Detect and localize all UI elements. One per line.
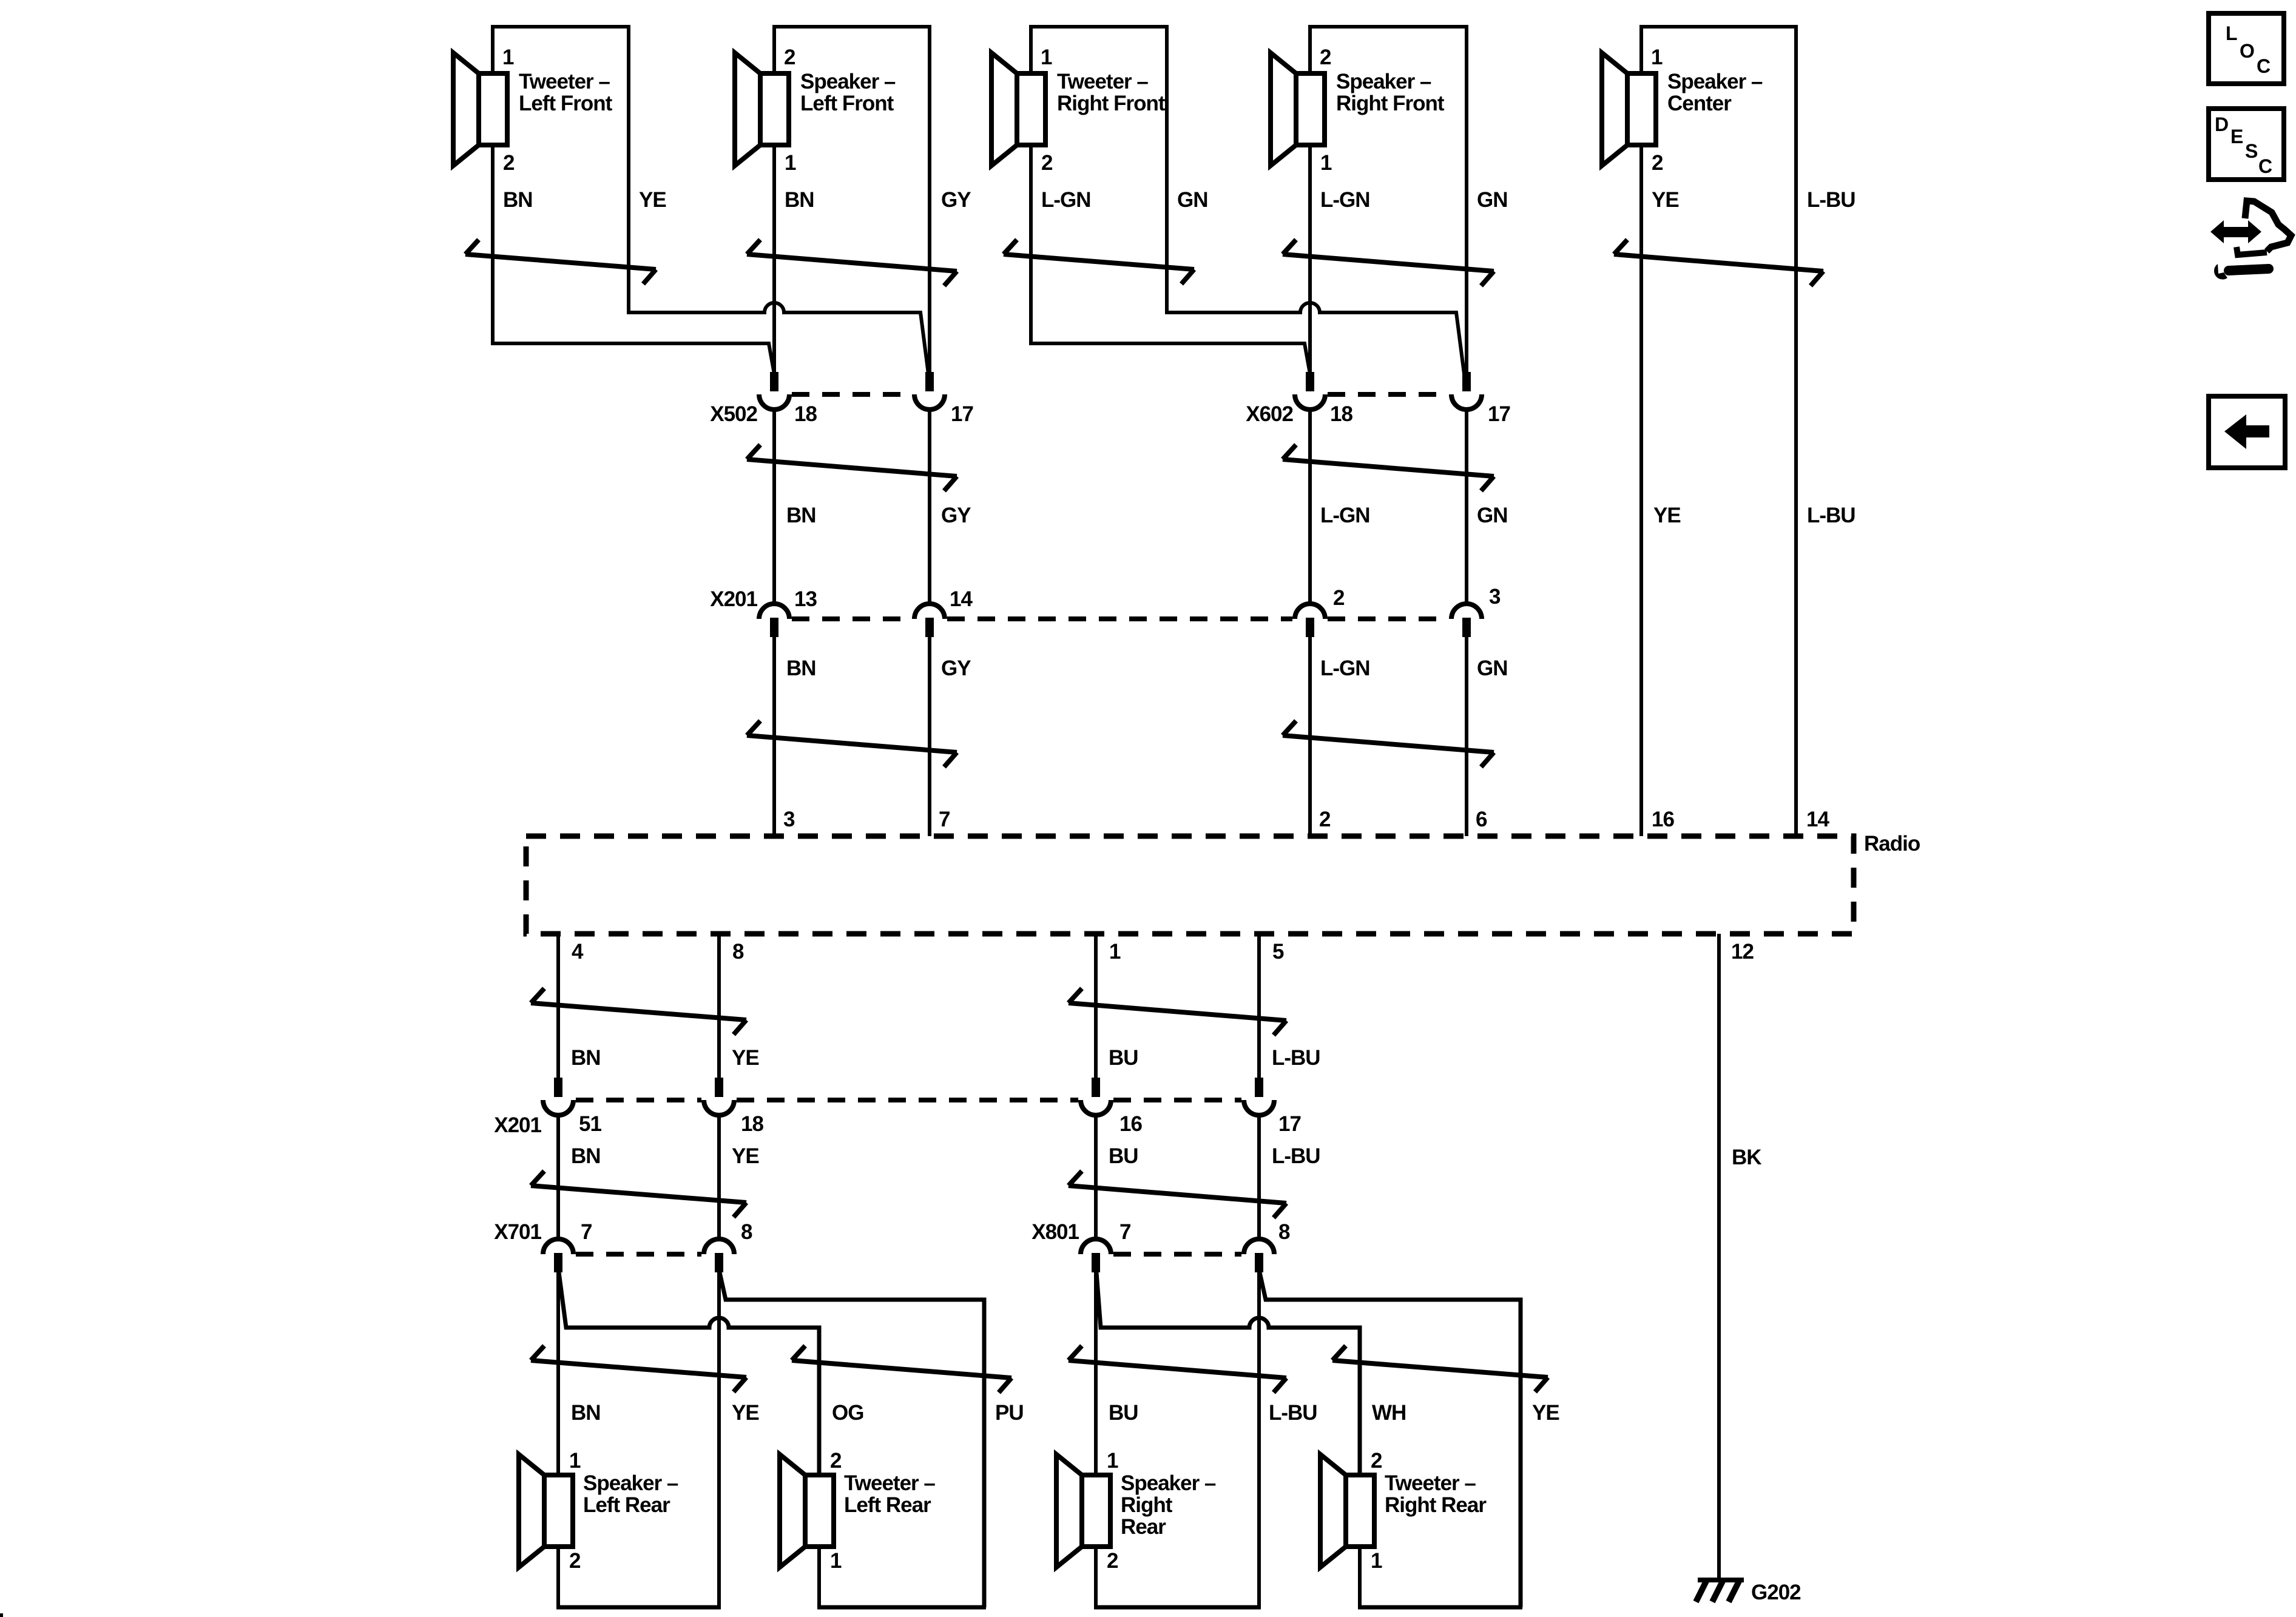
svg-text:2: 2: [1371, 1449, 1382, 1473]
wire L-GN tweeter-right-front pin 2 to X602 pin 18: [1031, 145, 1310, 374]
svg-text:YE: YE: [732, 1144, 759, 1168]
svg-text:17: 17: [951, 402, 973, 426]
svg-text:L-BU: L-BU: [1272, 1046, 1320, 1070]
connector X502 pin 17: [925, 372, 934, 391]
svg-text:2: 2: [1107, 1549, 1118, 1573]
connector X801 pin 7: [1081, 1239, 1111, 1254]
svg-text:3: 3: [1489, 585, 1501, 609]
svg-text:17: 17: [1278, 1112, 1301, 1136]
twisted pair symbol LF pair (middle): [747, 459, 957, 476]
svg-text:L: L: [2226, 22, 2237, 44]
svg-text:X502: X502: [710, 402, 757, 426]
svg-text:GY: GY: [941, 188, 971, 212]
svg-text:X201: X201: [710, 587, 757, 611]
svg-text:Left Front: Left Front: [519, 92, 613, 115]
svg-text:7: 7: [581, 1220, 592, 1244]
speaker icon speaker right front: [1271, 53, 1296, 166]
svg-text:1: 1: [830, 1549, 842, 1573]
svg-text:8: 8: [1278, 1220, 1290, 1244]
twisted pair symbol LF pair (lower): [747, 735, 957, 752]
twisted pair symbol center speaker pair: [1614, 254, 1823, 271]
svg-text:1: 1: [569, 1449, 581, 1473]
connector X201 pin 13: [759, 604, 789, 619]
dashed connector line X201 18-16: [737, 1098, 1078, 1102]
svg-text:G202: G202: [1751, 1581, 1801, 1604]
speaker icon speaker center: [1602, 53, 1627, 166]
connector X602 pin 17: [1462, 372, 1471, 391]
svg-text:O: O: [2240, 40, 2254, 62]
svg-text:12: 12: [1731, 940, 1754, 964]
dashed connector line X701: [576, 1252, 701, 1257]
svg-text:Speaker –: Speaker –: [1336, 70, 1431, 93]
wire YE speaker-center pin 1 to radio pin 16: [1639, 145, 1643, 836]
twisted pair symbol LF tweeter pair: [465, 254, 656, 269]
wire GN X502/X602 to X201: [1465, 410, 1468, 604]
twisted pair symbol tweeter-left-rear: [792, 1360, 1011, 1378]
wire BN speaker-left-front pin 1 to X502 pin 18: [772, 145, 776, 374]
svg-text:L-BU: L-BU: [1807, 504, 1855, 527]
svg-text:5: 5: [1272, 940, 1284, 964]
svg-text:2: 2: [1041, 151, 1053, 175]
connector X201 pin 17: [1255, 1078, 1263, 1097]
svg-text:Left Rear: Left Rear: [583, 1493, 670, 1517]
svg-text:Tweeter –: Tweeter –: [844, 1471, 935, 1495]
wire GY speaker-left-front pin 2 to X502 pin 17: [774, 27, 930, 374]
svg-text:8: 8: [732, 940, 744, 964]
svg-text:51: 51: [579, 1112, 601, 1136]
wire WH X801 pin 7 branch to tweeter-right-rear pin 2: [1096, 1272, 1360, 1475]
twisted pair symbol tweeter-right-rear: [1332, 1360, 1548, 1377]
wire BU X201 to X701/X801: [1094, 1115, 1098, 1239]
twisted pair symbol RR pair (middle): [1069, 1186, 1286, 1203]
speaker icon speaker left rear: [519, 1454, 544, 1567]
wire L-BU radio pin 5 to X201: [1257, 934, 1261, 1078]
svg-text:3: 3: [783, 808, 795, 831]
svg-text:Speaker –: Speaker –: [1667, 70, 1763, 93]
svg-text:X602: X602: [1246, 402, 1293, 426]
svg-text:2: 2: [1320, 46, 1331, 69]
dashed connector line X201 2-3: [1328, 616, 1449, 621]
icon DESC box: [2209, 109, 2284, 180]
svg-text:D: D: [2215, 113, 2228, 135]
svg-text:7: 7: [939, 808, 950, 831]
svg-text:BN: BN: [571, 1401, 601, 1425]
wire OG tweeter-left-rear lower segment: [817, 1547, 821, 1607]
wire YE tweeter-left-front pin 1 to X502 pin 17: [493, 27, 928, 374]
wire BN tweeter-left-front pin 2 to X502 pin 18: [493, 145, 774, 374]
svg-text:Right Front: Right Front: [1336, 92, 1445, 115]
corner speck: [0, 1613, 3, 1617]
wire BN X201 to X701/X801: [556, 1115, 560, 1239]
svg-text:YE: YE: [732, 1046, 759, 1070]
svg-text:8: 8: [741, 1220, 752, 1244]
wire speaker-left-rear bottom: [556, 1605, 721, 1610]
svg-text:2: 2: [1319, 808, 1331, 831]
svg-text:BU: BU: [1109, 1144, 1138, 1168]
twisted pair symbol RF tweeter pair: [1004, 254, 1194, 269]
wire GN tweeter-right-front pin 1 to X602 pin 17: [1031, 27, 1464, 374]
svg-text:Speaker –: Speaker –: [1121, 1471, 1216, 1495]
twisted pair symbol speaker-left-rear: [531, 1360, 746, 1377]
wire BN X701 pin 7 to speaker-left-rear pin 1: [556, 1272, 560, 1607]
svg-text:Speaker –: Speaker –: [800, 70, 896, 93]
svg-text:Left Front: Left Front: [800, 92, 894, 115]
wire YE X201 to X701/X801: [717, 1115, 721, 1239]
wire YE X801 pin 8 branch to tweeter-right-rear pin 1: [1260, 1272, 1521, 1607]
svg-text:2: 2: [1333, 586, 1345, 610]
svg-text:1: 1: [502, 46, 514, 69]
svg-text:1: 1: [1107, 1449, 1118, 1473]
wire L-GN speaker-right-front pin 1 to X602 pin 18: [1308, 145, 1312, 374]
icon back-arrow box: [2209, 396, 2285, 468]
svg-text:L-GN: L-GN: [1320, 504, 1370, 527]
connector X701 pin 7: [543, 1239, 573, 1254]
svg-text:X701: X701: [494, 1220, 541, 1244]
svg-text:1: 1: [1651, 46, 1663, 69]
twisted pair symbol RF speaker pair: [1283, 254, 1494, 271]
svg-text:Tweeter –: Tweeter –: [1385, 1471, 1476, 1495]
svg-text:L-BU: L-BU: [1269, 1401, 1317, 1425]
connector X201 pin 18: [715, 1078, 723, 1097]
svg-text:X201: X201: [494, 1113, 541, 1137]
svg-text:18: 18: [794, 402, 817, 426]
wire BN radio pin 4 to X201: [556, 934, 560, 1078]
svg-text:Tweeter –: Tweeter –: [519, 70, 610, 93]
svg-text:Left Rear: Left Rear: [844, 1493, 931, 1517]
dashed connector line X602: [1328, 392, 1449, 397]
svg-text:Right: Right: [1121, 1493, 1173, 1517]
svg-text:YE: YE: [1532, 1401, 1559, 1425]
svg-text:BN: BN: [571, 1046, 601, 1070]
svg-text:YE: YE: [1652, 188, 1679, 212]
wire YE X701 pin 8 to speaker-left-rear pin 2: [717, 1272, 721, 1607]
svg-text:BN: BN: [503, 188, 533, 212]
svg-text:13: 13: [794, 587, 817, 611]
svg-text:1: 1: [785, 151, 796, 175]
svg-text:PU: PU: [995, 1401, 1024, 1425]
svg-text:E: E: [2230, 126, 2243, 147]
svg-text:OG: OG: [832, 1401, 863, 1425]
svg-text:GY: GY: [941, 504, 971, 527]
svg-text:X801: X801: [1032, 1220, 1079, 1244]
twisted pair symbol RR pair (upper): [1069, 1003, 1286, 1021]
svg-text:BN: BN: [786, 657, 816, 680]
connector X201 pin 3: [1451, 604, 1482, 619]
twisted pair symbol RF pair (middle): [1283, 459, 1494, 476]
svg-text:Tweeter –: Tweeter –: [1057, 70, 1148, 93]
svg-text:2: 2: [784, 46, 795, 69]
wire BU radio pin 1 to X201: [1094, 934, 1098, 1078]
wire speaker-right-rear bottom: [1094, 1605, 1261, 1610]
wire BN X201 to radio pin 3: [772, 637, 776, 836]
svg-text:GN: GN: [1177, 188, 1208, 212]
svg-text:14: 14: [1806, 808, 1829, 831]
wire L-BU X201 to X701/X801: [1257, 1115, 1261, 1239]
svg-text:7: 7: [1119, 1220, 1130, 1244]
connector X201 pin 51: [554, 1078, 562, 1097]
twisted pair symbol LF speaker pair: [747, 254, 957, 271]
svg-text:WH: WH: [1372, 1401, 1406, 1425]
svg-text:16: 16: [1652, 808, 1674, 831]
wire WH tweeter-right-rear lower segment: [1358, 1547, 1362, 1607]
connector X201 pin 16: [1092, 1078, 1100, 1097]
twisted pair symbol RF pair (lower): [1283, 735, 1494, 752]
dashed connector line X801: [1113, 1252, 1241, 1257]
wire OG X701 pin 7 branch to tweeter-left-rear pin 2: [559, 1272, 819, 1475]
svg-text:2: 2: [1652, 151, 1663, 175]
svg-text:1: 1: [1109, 940, 1121, 964]
svg-text:18: 18: [741, 1112, 763, 1136]
svg-text:L-BU: L-BU: [1807, 188, 1855, 212]
speaker icon speaker right rear: [1056, 1454, 1082, 1567]
wire L-GN X201 to radio pin 2: [1308, 637, 1312, 836]
speaker icon speaker left front: [735, 53, 760, 166]
svg-text:GN: GN: [1477, 657, 1508, 680]
svg-text:L-BU: L-BU: [1272, 1144, 1320, 1168]
svg-text:L-GN: L-GN: [1041, 188, 1091, 212]
svg-text:Center: Center: [1667, 92, 1732, 115]
wire L-BU speaker-center pin 2 to radio pin 14: [1641, 27, 1796, 836]
wire GN speaker-right-front pin 2 to X602 pin 17: [1310, 27, 1467, 374]
svg-text:18: 18: [1330, 402, 1352, 426]
twisted pair symbol LR pair (upper): [531, 1003, 746, 1020]
wire GY X502/X602 to X201: [928, 410, 931, 604]
svg-text:6: 6: [1476, 808, 1487, 831]
wire L-BU X801 pin 8 to speaker-right-rear pin 2: [1257, 1272, 1261, 1607]
svg-text:BN: BN: [571, 1144, 601, 1168]
svg-text:1: 1: [1371, 1549, 1382, 1573]
svg-text:L-GN: L-GN: [1320, 188, 1370, 212]
twisted pair symbol LR pair (middle): [531, 1186, 746, 1203]
svg-text:GY: GY: [941, 657, 971, 680]
speaker icon tweeter right rear: [1320, 1454, 1346, 1567]
wire YE radio pin 8 to X201: [717, 934, 721, 1078]
wire BK radio pin 12 to ground: [1717, 934, 1721, 1580]
svg-text:1: 1: [1041, 46, 1052, 69]
wire tweeter-left-rear bottom: [817, 1605, 986, 1610]
svg-text:BN: BN: [786, 504, 816, 527]
connector X201 pin 2: [1295, 604, 1325, 619]
dashed connector line X201 16-17: [1113, 1098, 1241, 1102]
dashed connector line X201 14-2: [947, 616, 1292, 621]
svg-text:S: S: [2245, 140, 2258, 162]
svg-text:BK: BK: [1732, 1146, 1761, 1169]
dashed connector line X201 51-18: [576, 1098, 701, 1102]
svg-text:GN: GN: [1477, 504, 1508, 527]
svg-text:YE: YE: [732, 1401, 759, 1425]
speaker icon tweeter right front: [991, 53, 1017, 166]
svg-text:Radio: Radio: [1864, 832, 1920, 856]
svg-text:C: C: [2257, 55, 2271, 77]
svg-text:YE: YE: [639, 188, 666, 212]
svg-text:2: 2: [503, 151, 515, 175]
connector X502 pin 18: [770, 372, 778, 391]
dashed connector line X201 13-14: [792, 616, 912, 621]
svg-text:YE: YE: [1653, 504, 1681, 527]
connector X701 pin 8: [704, 1239, 734, 1254]
svg-text:16: 16: [1119, 1112, 1142, 1136]
speaker icon tweeter left front: [453, 53, 479, 166]
wire GY X201 to radio pin 7: [928, 637, 931, 836]
svg-text:BN: BN: [785, 188, 814, 212]
twisted pair symbol speaker-right-rear: [1069, 1360, 1286, 1378]
svg-text:14: 14: [950, 587, 973, 611]
svg-text:2: 2: [569, 1549, 581, 1573]
svg-text:1: 1: [1320, 151, 1332, 175]
ground G202: [1698, 1578, 1744, 1582]
wire L-GN X502/X602 to X201: [1308, 410, 1312, 604]
wire GN X201 to radio pin 6: [1465, 637, 1468, 836]
svg-text:GN: GN: [1477, 188, 1508, 212]
connector X602 pin 18: [1306, 372, 1314, 391]
wire BN X502/X602 to X201: [772, 410, 776, 604]
dashed connector line X502: [792, 392, 912, 397]
wire PU X701 pin 8 branch to tweeter-left-rear pin 1: [720, 1272, 984, 1607]
svg-text:17: 17: [1488, 402, 1510, 426]
svg-text:Rear: Rear: [1121, 1515, 1166, 1539]
svg-text:Right Rear: Right Rear: [1385, 1493, 1487, 1517]
svg-text:L-GN: L-GN: [1320, 657, 1370, 680]
connector X201 pin 14: [914, 604, 945, 619]
icon LOC box: [2209, 13, 2284, 84]
svg-text:C: C: [2258, 155, 2272, 177]
svg-text:BU: BU: [1109, 1401, 1138, 1425]
connector X801 pin 8: [1244, 1239, 1274, 1254]
wire tweeter-right-rear bottom: [1358, 1605, 1522, 1610]
svg-text:Right Front: Right Front: [1057, 92, 1166, 115]
svg-text:2: 2: [830, 1449, 842, 1473]
icon connector-end-view with wrench: [2245, 201, 2291, 251]
radio (dashed box): [526, 836, 1854, 934]
svg-text:Speaker –: Speaker –: [583, 1471, 678, 1495]
wire BU X801 pin 7 to speaker-right-rear pin 1: [1094, 1272, 1098, 1607]
svg-text:BU: BU: [1109, 1046, 1138, 1070]
svg-text:4: 4: [572, 940, 584, 964]
speaker icon tweeter left rear: [780, 1454, 805, 1567]
